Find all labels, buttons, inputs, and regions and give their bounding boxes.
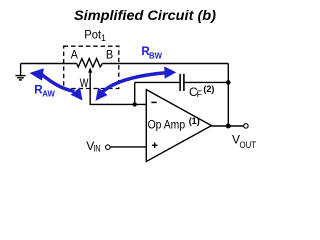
svg-text:Simplified Circuit (b): Simplified Circuit (b)	[74, 7, 216, 23]
svg-text:W: W	[80, 76, 89, 90]
svg-text:B: B	[106, 47, 113, 61]
svg-text:IN: IN	[93, 144, 100, 154]
svg-text:(2): (2)	[203, 84, 214, 94]
svg-text:Op Amp: Op Amp	[148, 118, 186, 132]
svg-text:F: F	[197, 89, 203, 99]
svg-text:Pot: Pot	[84, 28, 101, 42]
svg-text:BW: BW	[149, 51, 163, 61]
svg-text:A: A	[71, 47, 78, 61]
svg-text:1: 1	[101, 33, 106, 43]
svg-text:OUT: OUT	[240, 140, 257, 150]
svg-text:AW: AW	[42, 88, 55, 98]
svg-text:(1): (1)	[189, 116, 200, 126]
